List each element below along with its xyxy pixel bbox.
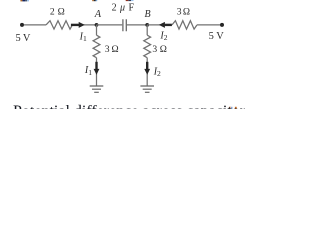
wire node A down (96, 25, 98, 35)
wire left terminal to R 2ohm (24, 24, 46, 26)
svg-text:V: V (23, 33, 31, 44)
right terminal dot (220, 23, 224, 27)
svg-text:Ω: Ω (58, 7, 65, 18)
svg-text:I2: I2 (159, 31, 167, 43)
svg-text:Ω: Ω (183, 7, 190, 18)
svg-text:F: F (129, 2, 135, 13)
wire capacitor to node B (127, 24, 147, 26)
wire resistor to node A (72, 24, 96, 26)
svg-text:V: V (216, 31, 224, 42)
current arrow I2 (leftward) (165, 24, 172, 26)
current arrow I1 (rightward) (71, 24, 79, 26)
wire node B down (146, 25, 148, 35)
svg-text:Ω: Ω (160, 44, 167, 55)
wire R 3ohm to right terminal (197, 24, 221, 26)
wire right branch down to ground (146, 58, 148, 86)
svg-text:3: 3 (152, 44, 157, 55)
svg-text:5: 5 (16, 33, 21, 44)
svg-text:5: 5 (209, 31, 214, 42)
top-left colored speck (20, 0, 133, 1)
svg-text:2: 2 (50, 7, 55, 18)
svg-text:I1: I1 (84, 65, 92, 77)
wire left branch down to ground (96, 58, 98, 86)
svg-text:B: B (145, 9, 151, 20)
resistor 3 ohm (right) (172, 21, 197, 29)
svg-text:I2: I2 (153, 67, 161, 79)
node B (145, 23, 149, 27)
svg-text:I1: I1 (79, 31, 87, 43)
svg-text:Ω: Ω (112, 44, 119, 55)
resistor 3 ohm (right branch, vertical) (144, 35, 151, 58)
ground (left) (90, 86, 104, 92)
left terminal dot (20, 23, 24, 27)
svg-text:A: A (94, 9, 102, 20)
resistor 2 ohm (46, 21, 72, 29)
svg-text:2: 2 (112, 2, 117, 13)
svg-text:μ: μ (119, 2, 125, 13)
capacitor C 2uF plates (123, 19, 126, 31)
bottom-right colored speck (235, 107, 237, 109)
current arrow I1 (downward) (95, 62, 97, 70)
node A (95, 23, 99, 27)
current arrow I2 (downward) (146, 62, 148, 70)
svg-text:3: 3 (177, 7, 182, 18)
wire node A to capacitor (97, 24, 123, 26)
svg-text:3: 3 (105, 44, 110, 55)
ground (right) (140, 86, 154, 92)
wire node B to R 3ohm (right) (147, 24, 172, 26)
caption (cut off at bottom edge) (13, 103, 320, 121)
resistor 3 ohm (left branch, vertical) (93, 35, 100, 58)
